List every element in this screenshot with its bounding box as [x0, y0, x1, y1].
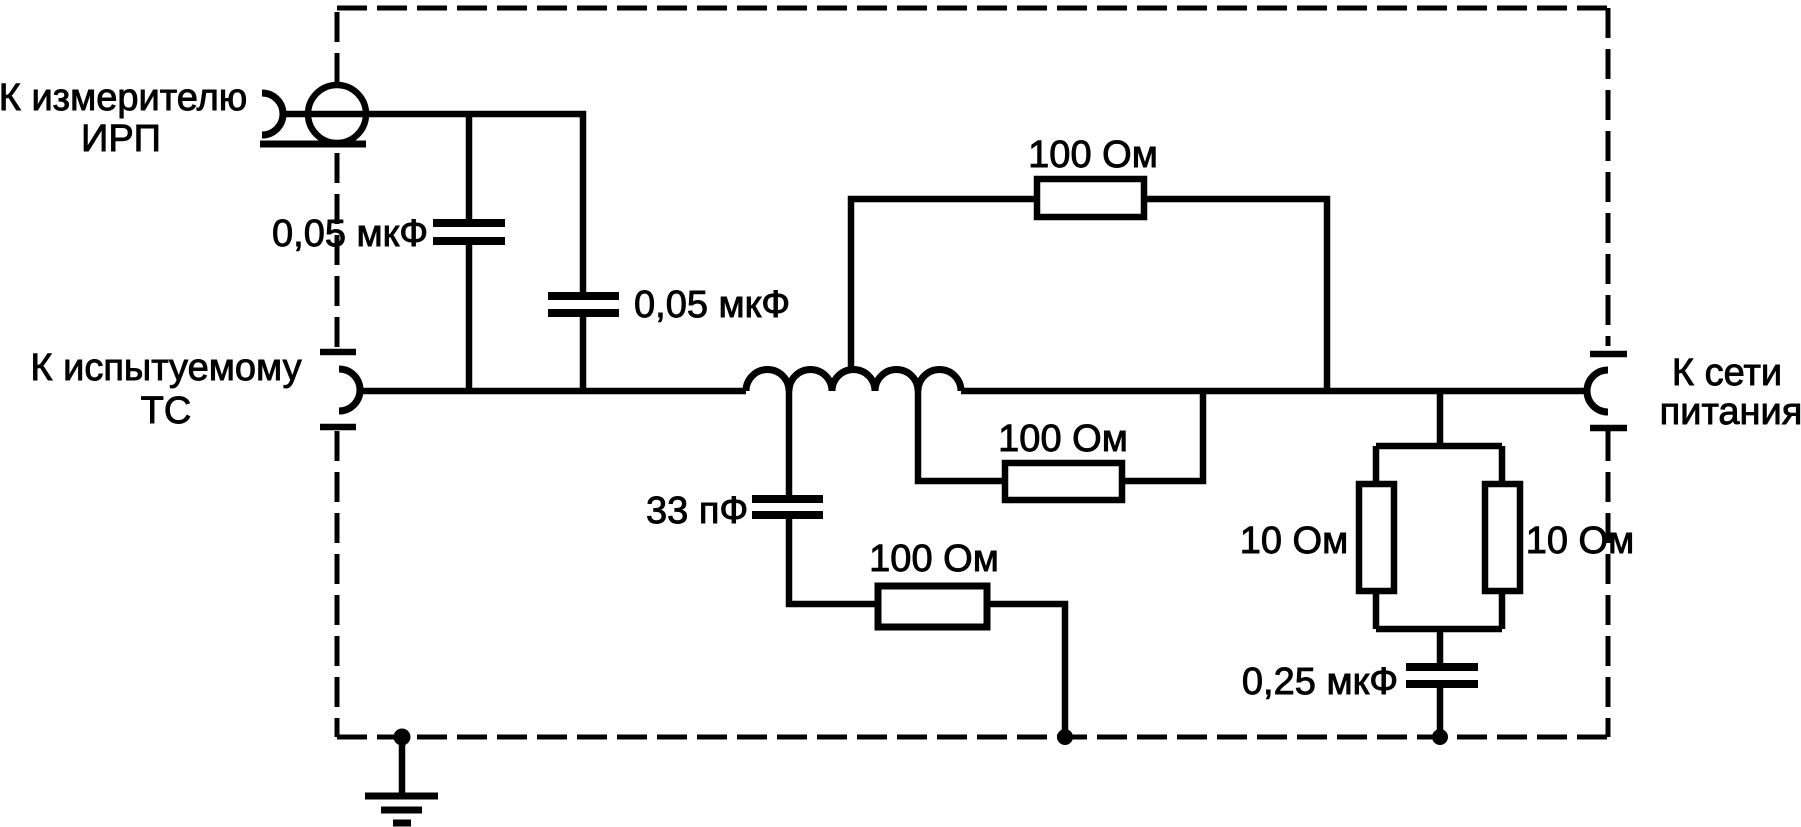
junction dot ground: [394, 729, 411, 746]
connector XW1 circle (current probe to ИРП meter): [308, 85, 366, 143]
resistor R3 100 Ом: [878, 586, 987, 627]
svg-text:0,05 мкФ: 0,05 мкФ: [634, 284, 790, 326]
wire C3 to R3: [789, 519, 878, 604]
connector XW3 lower bar: [1590, 425, 1627, 432]
wire top bar to R5: [1499, 446, 1506, 481]
wire main right (inductor to XW3): [961, 388, 1589, 395]
connector XW3 socket arc: [1587, 370, 1608, 412]
connector XW2 lower bar: [320, 424, 356, 431]
enclosure dashed border left middle segment: [335, 146, 340, 347]
wire C4 to bottom border: [1437, 688, 1444, 737]
svg-text:10 Ом: 10 Ом: [1240, 520, 1349, 562]
wire 10 Ом top bar: [1376, 443, 1502, 450]
svg-text:К сети: К сети: [1672, 352, 1782, 394]
wire inductor tap to C3: [786, 388, 793, 495]
wire C1 branch lower: [466, 245, 473, 391]
wire 10 Ом bottom bar: [1376, 626, 1502, 633]
svg-text:0,25 мкФ: 0,25 мкФ: [1242, 661, 1398, 703]
ground bar 1: [365, 793, 438, 800]
svg-text:питания: питания: [1660, 391, 1801, 433]
svg-text:100 Ом: 100 Ом: [1028, 134, 1158, 176]
wire R1 to main wire: [1144, 199, 1327, 391]
svg-text:100 Ом: 100 Ом: [869, 538, 999, 580]
enclosure dashed border right upper segment: [1606, 8, 1611, 346]
svg-text:10 Ом: 10 Ом: [1526, 520, 1635, 562]
connector XW1 socket arc: [262, 93, 283, 135]
wire R4 to bottom bar: [1373, 594, 1380, 629]
svg-text:К измерителю: К измерителю: [0, 77, 247, 119]
capacitor C4 0,25 мкФ plates: [1406, 667, 1478, 684]
wire inductor center tap up to R1: [851, 199, 1034, 372]
connector XW2 upper bar: [320, 349, 356, 356]
resistor R2 100 Ом: [1005, 463, 1122, 500]
wire R5 to bottom bar: [1499, 594, 1506, 629]
enclosure dashed border left lower segment: [335, 431, 340, 737]
enclosure dashed border left segment above circle: [335, 8, 340, 83]
wire C2 lower: [580, 317, 587, 391]
capacitor C2 0,05 мкФ plates: [548, 296, 619, 313]
wire inductor right tap down to R2: [918, 388, 1002, 481]
resistor R1 100 Ом: [1037, 179, 1144, 217]
svg-text:ТС: ТС: [141, 390, 192, 432]
wire main to 10 Ом pair: [1437, 391, 1444, 449]
enclosure dashed border right lower segment: [1606, 431, 1611, 737]
capacitor C1 0,05 мкФ plates: [433, 223, 505, 241]
junction dot C4 branch: [1432, 729, 1448, 745]
capacitor C3 33 пФ plates: [752, 499, 823, 515]
svg-text:33 пФ: 33 пФ: [646, 490, 748, 532]
wire R2 to main wire: [1122, 391, 1203, 481]
wire top bar to R4: [1373, 446, 1380, 481]
wire bottom bar to C4: [1437, 626, 1444, 664]
inductor L1: [746, 370, 961, 392]
wire C1 branch upper: [466, 114, 473, 219]
wire main left (XW2 to inductor): [360, 388, 746, 395]
svg-text:0,05 мкФ: 0,05 мкФ: [272, 213, 428, 255]
enclosure dashed border bottom: [337, 735, 1608, 740]
wire R3 to bottom border: [987, 604, 1065, 737]
connector XW3 upper bar: [1590, 351, 1627, 358]
junction dot R3 branch: [1057, 729, 1073, 745]
ground stem: [399, 737, 406, 793]
svg-text:ИРП: ИРП: [81, 118, 161, 160]
svg-text:100 Ом: 100 Ом: [998, 418, 1128, 460]
enclosure dashed border top: [337, 6, 1608, 11]
connector XW2 socket arc: [339, 369, 360, 411]
svg-text:К испытуемому: К испытуемому: [30, 347, 301, 389]
wire from measurer connector through circle to C2 corner: [283, 114, 583, 292]
wire second conductor under circle: [260, 141, 366, 148]
ground bar 3: [393, 820, 411, 827]
ground bar 2: [381, 807, 422, 814]
resistor R4 10 Ом: [1359, 484, 1394, 591]
resistor R5 10 Ом: [1485, 484, 1520, 591]
